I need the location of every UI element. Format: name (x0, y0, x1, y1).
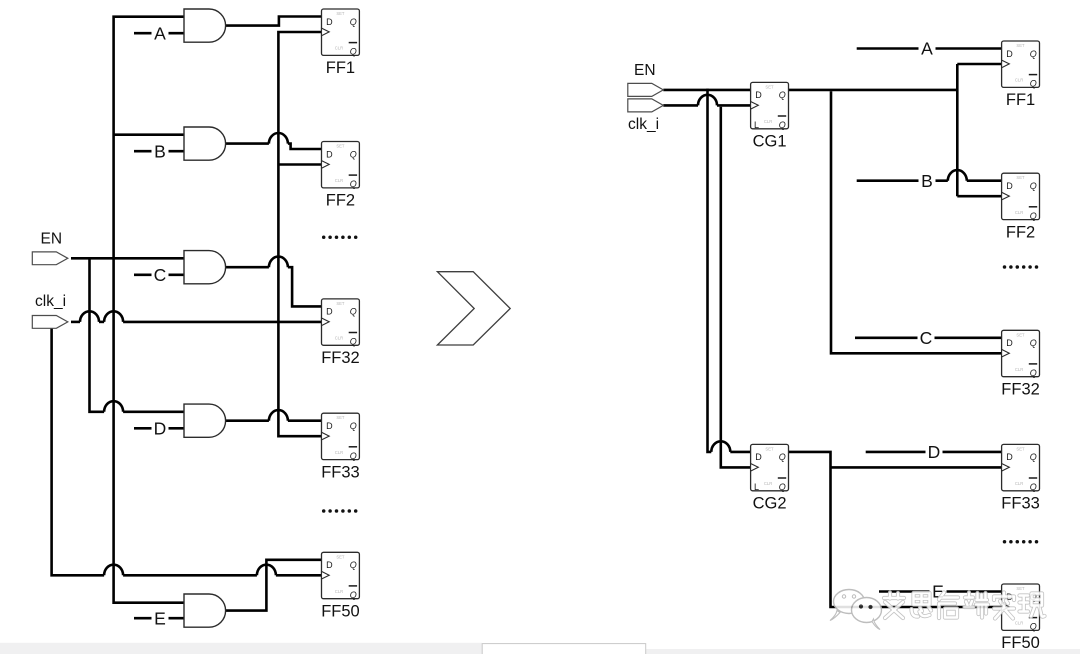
flip-flop FF2 (right) (1002, 173, 1040, 241)
wire EN branch to B gate (114, 133, 185, 136)
and-gate E (184, 594, 226, 627)
wire gated clock to FF2 (957, 195, 1001, 198)
svg-text:Q: Q (1030, 181, 1037, 191)
svg-text:D: D (755, 452, 762, 462)
svg-text:EN: EN (634, 62, 656, 79)
svg-text:Q: Q (350, 560, 357, 570)
svg-text:CLR: CLR (1015, 367, 1023, 372)
wire clk_i to CG1 segment (663, 104, 698, 107)
svg-text:Q: Q (1030, 622, 1037, 632)
and-gate B (184, 127, 226, 160)
svg-text:SET: SET (336, 301, 345, 306)
svg-text:B: B (154, 141, 166, 161)
wire hop over clk vertical (711, 441, 730, 452)
svg-text:Q: Q (350, 337, 357, 347)
svg-text:A: A (921, 39, 933, 59)
svg-text:FF50: FF50 (321, 603, 360, 621)
wire hop over EN vertical (104, 565, 123, 576)
flip-flop FF33 (left) (321, 413, 360, 481)
svg-text:clk_i: clk_i (628, 116, 659, 133)
ellipsis dots below FF2 (left) (322, 236, 358, 240)
svg-text:Q: Q (350, 17, 357, 27)
wire C gate output (225, 266, 269, 269)
flip-flop FF32 (right) (1001, 330, 1040, 398)
svg-text:D: D (326, 17, 333, 27)
svg-text:CLR: CLR (764, 481, 772, 486)
flip-flop FF1 (left) (322, 9, 360, 77)
ellipsis dots below FF33 (left) (322, 509, 358, 513)
node B label (152, 142, 169, 161)
node E label (930, 582, 947, 601)
flip-flop FF50 (right) (1001, 584, 1040, 652)
svg-text:Q: Q (350, 590, 357, 600)
node C label (152, 265, 169, 284)
svg-text:SET: SET (765, 84, 774, 89)
wire E gate output to FF50 D (225, 560, 322, 611)
input port clk_i (right) (628, 99, 664, 112)
svg-text:Q: Q (1030, 79, 1037, 89)
svg-text:SET: SET (1016, 175, 1025, 180)
svg-text:FF1: FF1 (326, 59, 355, 77)
svg-text:D: D (1006, 181, 1013, 191)
wire clk_i trunk segment 1 (71, 321, 80, 324)
bottom input box (482, 644, 646, 654)
svg-text:SET: SET (1016, 43, 1025, 48)
svg-text:FF33: FF33 (321, 463, 360, 481)
wire hop over gated clock vertical (948, 170, 967, 181)
svg-text:D: D (1006, 49, 1013, 59)
flip-flop FF32 (left) (321, 299, 360, 367)
svg-text:SET: SET (336, 415, 345, 420)
svg-text:CLR: CLR (1015, 481, 1023, 486)
wire EN to CG1 D (663, 89, 750, 92)
wire input A to FF1 D (857, 47, 1002, 50)
svg-text:FF33: FF33 (1001, 495, 1040, 513)
svg-text:CLR: CLR (764, 119, 772, 124)
svg-text:Q: Q (779, 120, 786, 130)
wire D gate output to FF33 D (288, 419, 322, 422)
wire hop over EN vertical (104, 401, 123, 412)
clock-gate CG2 (751, 444, 789, 512)
wire clock branch to FF2 (278, 163, 321, 166)
svg-text:FF2: FF2 (1006, 223, 1035, 241)
wire clk_i drop to bottom row (52, 327, 105, 576)
svg-text:L: L (754, 482, 759, 492)
wire hop over EN drop (698, 95, 717, 106)
svg-text:SET: SET (1016, 446, 1025, 451)
wire clk drop to CG2 clock (721, 107, 751, 468)
svg-text:SET: SET (765, 446, 774, 451)
wire CG1 output trunk (789, 89, 958, 92)
svg-text:Q: Q (779, 452, 786, 462)
svg-text:Q: Q (779, 482, 786, 492)
input port EN (left) (32, 252, 68, 265)
wire EN branch down to D gate (90, 257, 105, 412)
flip-flop FF2 (left) (322, 142, 360, 210)
svg-text:D: D (1006, 338, 1013, 348)
svg-text:Q: Q (1030, 368, 1037, 378)
svg-text:Q: Q (1030, 211, 1037, 221)
wire input D stub (134, 427, 184, 430)
svg-text:SET: SET (336, 144, 345, 149)
input port clk_i (left) (32, 316, 68, 329)
svg-text:CLR: CLR (335, 46, 343, 51)
svg-text:EN: EN (41, 231, 63, 248)
wire EN branch to D gate after hop (123, 410, 184, 413)
svg-text:CLR: CLR (1015, 621, 1023, 626)
svg-text:Q: Q (1030, 338, 1037, 348)
svg-text:D: D (154, 419, 167, 439)
wire hop over EN branch vertical (80, 311, 99, 322)
svg-text:FF32: FF32 (321, 349, 360, 367)
wire B gate output to FF2 D (288, 144, 322, 149)
wire clock vertical FF1-FF33 (278, 32, 321, 436)
svg-text:CLR: CLR (335, 336, 343, 341)
svg-text:SET: SET (1016, 586, 1025, 591)
svg-text:clk_i: clk_i (35, 293, 66, 310)
svg-text:A: A (154, 23, 166, 43)
wire clk_i trunk to FF32 clock (123, 321, 321, 324)
svg-text:D: D (755, 90, 762, 100)
bottom toolbar strip (0, 643, 482, 654)
ellipsis dots below FF2 (right) (1003, 265, 1039, 269)
svg-text:SET: SET (336, 11, 345, 16)
svg-text:Q: Q (350, 149, 357, 159)
wire input B segment (857, 179, 948, 182)
wire EN trunk to C gate (71, 257, 184, 260)
svg-text:C: C (920, 328, 933, 348)
svg-text:CG1: CG1 (753, 133, 787, 151)
svg-text:Q: Q (1030, 452, 1037, 462)
wire clk_i to CG1 clock (717, 104, 751, 107)
wire input C to FF32 D (855, 336, 1002, 339)
chevron transform arrow (437, 272, 510, 345)
svg-text:FF2: FF2 (326, 192, 355, 210)
flip-flop FF1 (right) (1002, 41, 1040, 109)
wire EN to CG2 D after hop (730, 451, 750, 454)
wire hop over clock vertical (269, 133, 288, 144)
wire input E stub (134, 617, 184, 620)
flip-flop FF50 (left) (321, 552, 360, 620)
svg-text:CLR: CLR (335, 589, 343, 594)
input port EN (right) (628, 83, 664, 96)
and-gate D (184, 404, 226, 437)
wire input D to FF33 D (866, 451, 1002, 454)
node D label (152, 419, 169, 438)
node E label (152, 609, 169, 628)
svg-text:SET: SET (1016, 332, 1025, 337)
svg-text:D: D (326, 421, 333, 431)
svg-text:CLR: CLR (1015, 210, 1023, 215)
clock-gate CG1 (751, 82, 789, 150)
wire input B to FF2 D (967, 179, 1002, 182)
svg-text:D: D (1006, 452, 1013, 462)
wire gated clock to FF1 (957, 63, 1001, 66)
svg-text:B: B (921, 171, 933, 191)
wire C gate output to FF32 D (288, 267, 322, 306)
wire bottom clock segment (123, 574, 257, 577)
wire input A stub (134, 32, 184, 35)
wire B gate output (225, 142, 269, 145)
svg-text:CG2: CG2 (753, 495, 787, 513)
wire input B stub (134, 150, 184, 153)
wire gated clock to FF33 (831, 466, 1002, 469)
wire gated clock vertical FF1-FF2 (956, 64, 959, 196)
svg-text:Q: Q (350, 307, 357, 317)
wire hop over E output vertical (257, 565, 276, 576)
svg-text:Q: Q (1030, 49, 1037, 59)
ellipsis dots below FF33 (right) (1003, 540, 1039, 544)
svg-text:Q: Q (350, 421, 357, 431)
node A label (152, 24, 169, 43)
svg-text:CLR: CLR (1015, 78, 1023, 83)
node B label (919, 171, 936, 190)
svg-text:D: D (326, 149, 333, 159)
wire clk_i trunk segment 2 (99, 321, 104, 324)
svg-text:SET: SET (336, 554, 345, 559)
svg-text:D: D (326, 560, 333, 570)
svg-text:Q: Q (350, 47, 357, 57)
wire EN drop to CG2 (708, 89, 712, 452)
svg-text:Q: Q (350, 179, 357, 189)
flip-flop FF33 (right) (1001, 444, 1040, 512)
svg-text:Q: Q (350, 451, 357, 461)
svg-text:D: D (326, 307, 333, 317)
svg-text:Q: Q (1030, 482, 1037, 492)
svg-text:C: C (154, 265, 167, 285)
wire input C stub (134, 273, 184, 276)
and-gate C (184, 251, 226, 284)
wire gated clock to FF32 (831, 91, 1002, 353)
wire hop over clock vertical (269, 257, 288, 268)
and-gate A (184, 9, 226, 42)
node D label (926, 442, 943, 461)
svg-text:D: D (928, 442, 941, 462)
wire bottom clock to FF50 clock (276, 574, 322, 577)
svg-text:CLR: CLR (335, 178, 343, 183)
wire A gate output to FF1 D (225, 17, 322, 26)
wire hop over clock vertical (269, 410, 288, 421)
svg-text:CLR: CLR (335, 450, 343, 455)
wire input E to FF50 D (879, 590, 1002, 593)
svg-text:Q: Q (779, 90, 786, 100)
svg-text:E: E (154, 608, 166, 628)
wire EN vertical trunk (up to A gate, down to E gate) (114, 17, 184, 603)
watermark logo and text (830, 590, 1045, 630)
wire CG2 output to FF50 clock (789, 452, 1002, 607)
node C label (918, 328, 935, 347)
wire hop over EN vertical (104, 311, 123, 322)
node A label (919, 39, 936, 58)
wire D gate output (225, 419, 269, 422)
svg-text:L: L (754, 120, 759, 130)
svg-text:FF1: FF1 (1006, 91, 1035, 109)
svg-text:FF32: FF32 (1001, 381, 1040, 399)
